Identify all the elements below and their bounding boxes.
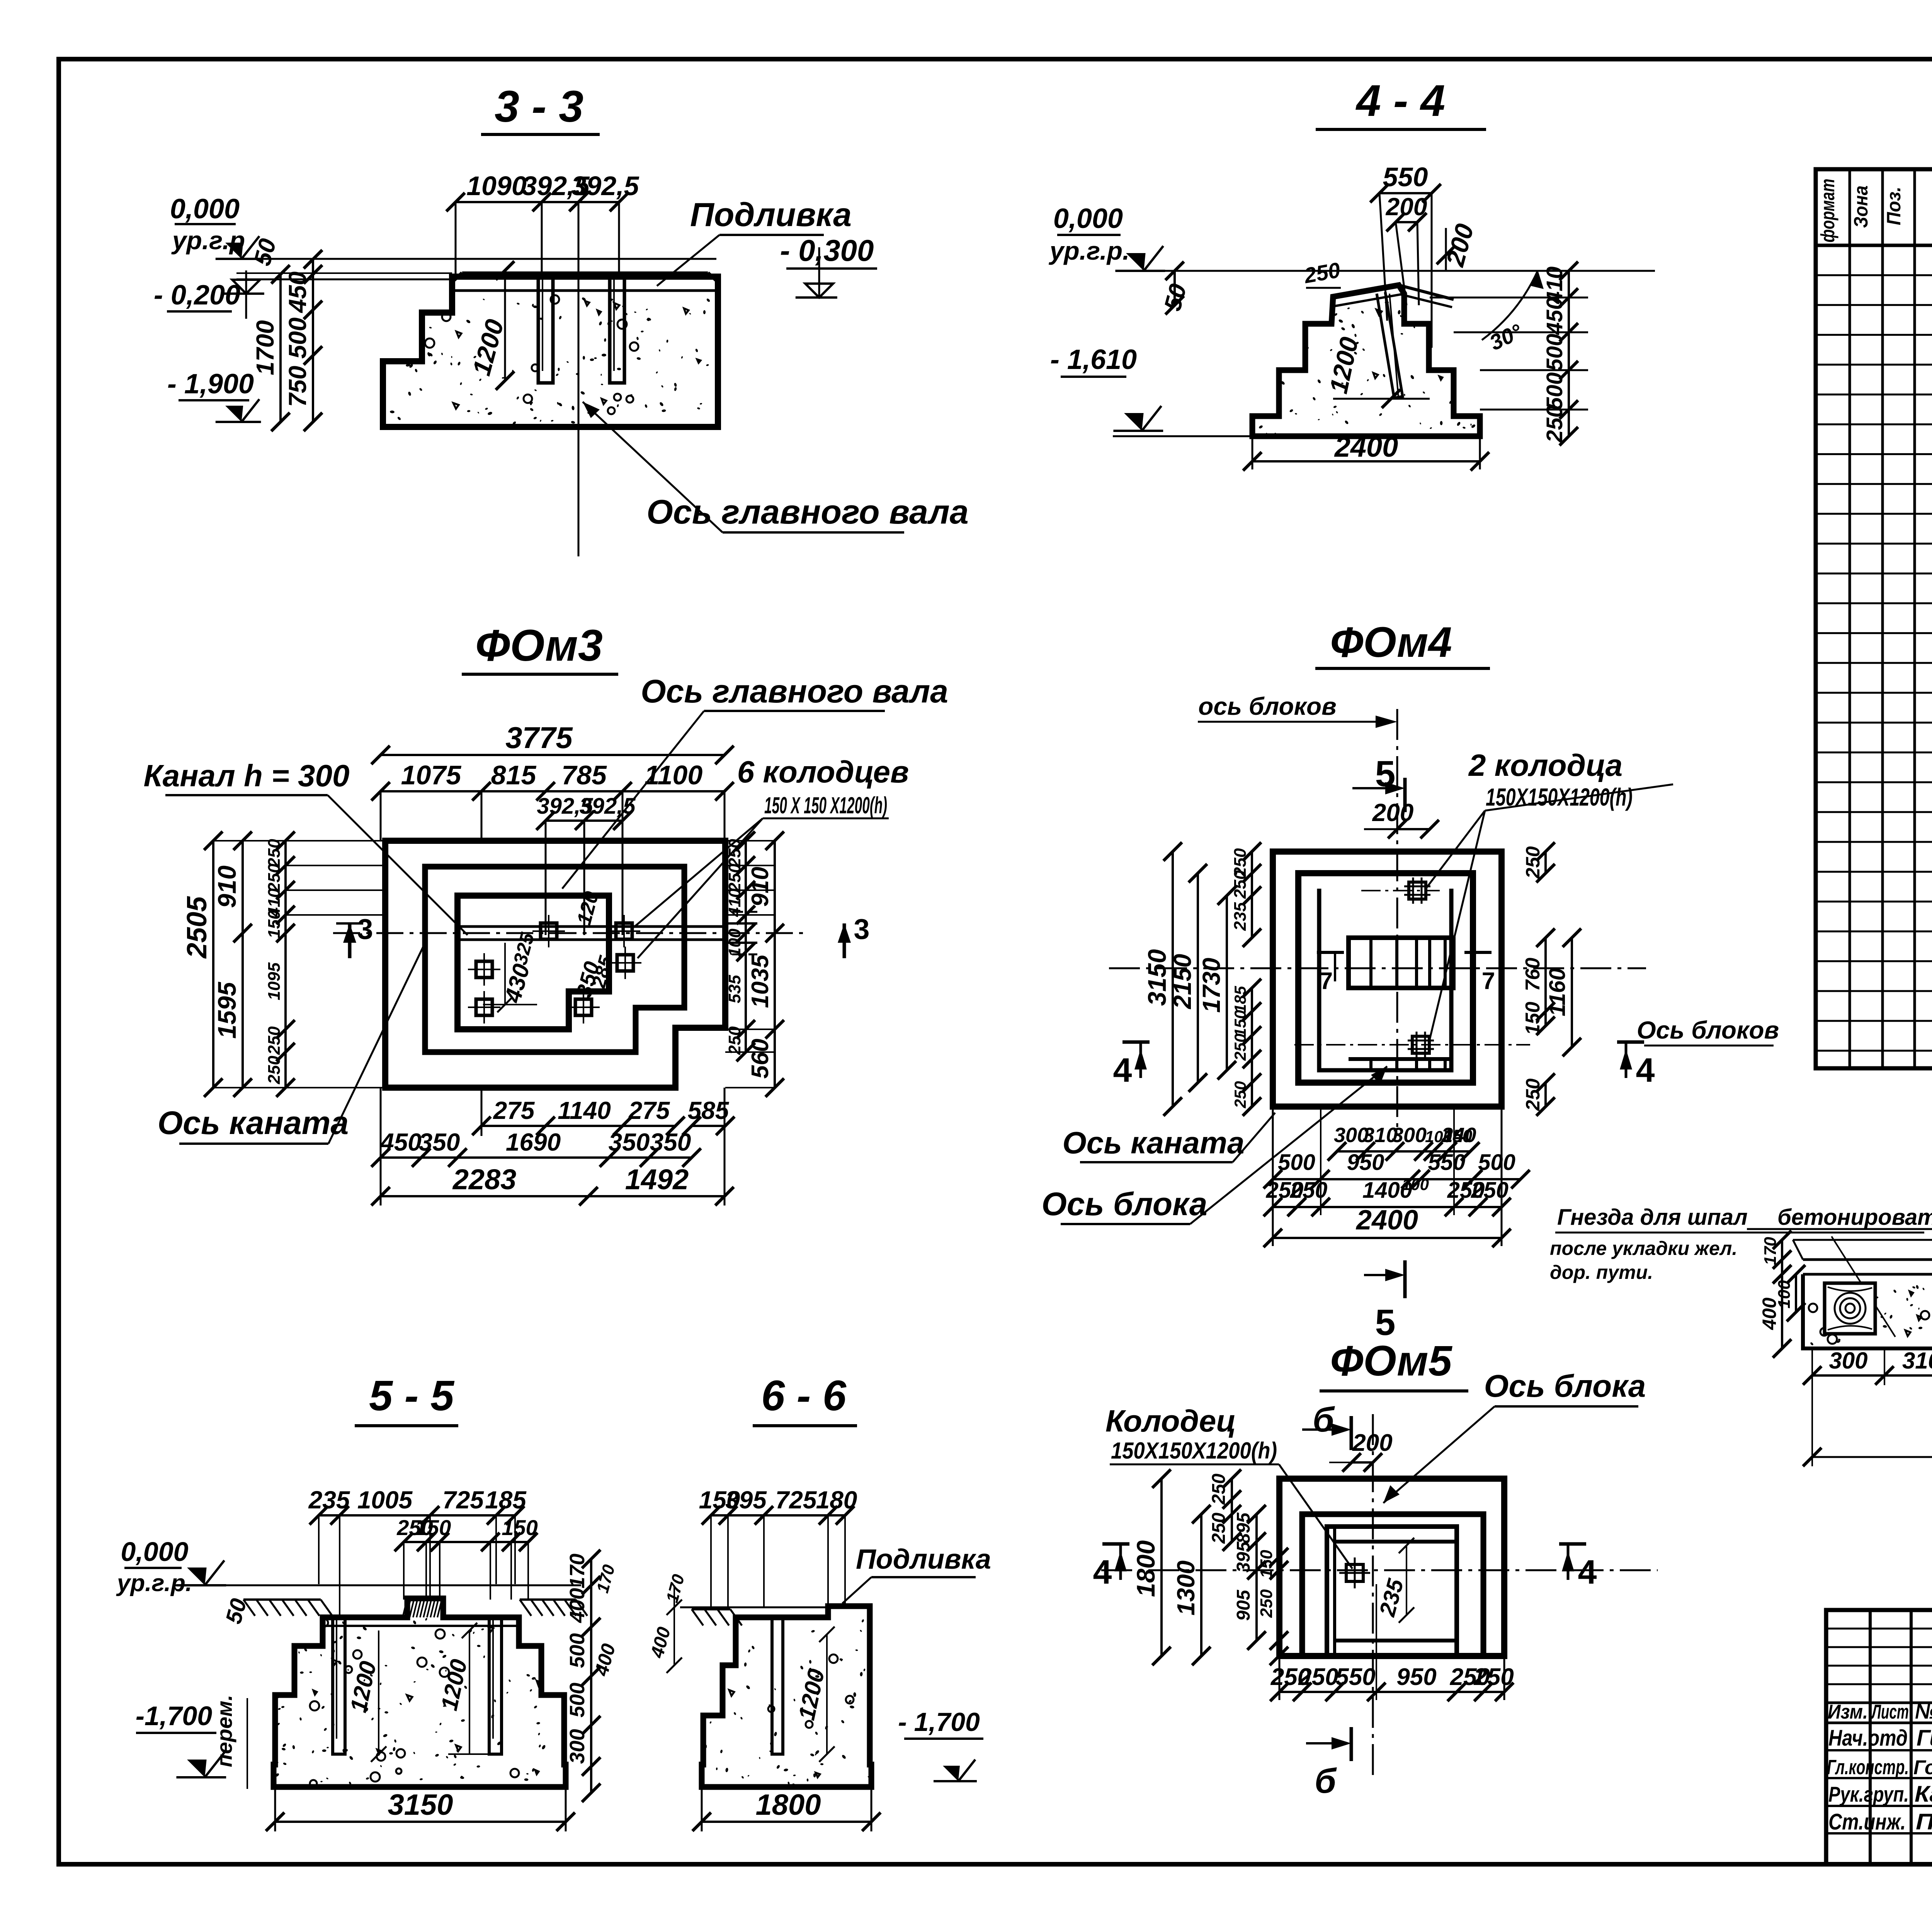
svg-text:550: 550 [1335,1664,1375,1690]
section 3-3 -0,200 level [154,270,452,319]
svg-text:395: 395 [725,1486,767,1514]
svg-text:150X150X1200(h): 150X150X1200(h) [1111,1438,1277,1464]
label Os kanata (FOm4) [1063,1113,1275,1162]
svg-text:ФОм5: ФОм5 [1330,1337,1452,1385]
svg-text:1035: 1035 [747,954,774,1008]
section 3-3 depth dimension 1200 [467,261,514,390]
svg-text:Гин: Гин [1917,1726,1932,1751]
svg-text:Гл.констр.: Гл.констр. [1827,1756,1909,1779]
svg-text:1005: 1005 [357,1486,413,1514]
svg-text:785: 785 [561,760,607,790]
svg-text:500: 500 [566,1683,589,1717]
svg-text:310: 310 [1902,1348,1932,1374]
FOm5 section mark b (top) [1302,1401,1351,1450]
svg-text:300: 300 [1829,1348,1867,1374]
svg-text:50: 50 [249,236,281,268]
svg-text:0,000: 0,000 [1053,203,1123,234]
svg-text:1160: 1160 [1545,968,1570,1017]
section 6-6 level -1,700 [898,1707,983,1781]
label Os blokov (FOm4 right) [1637,1016,1779,1046]
svg-text:910: 910 [213,865,241,908]
svg-text:ФОм3: ФОм3 [475,621,603,670]
svg-text:250: 250 [1231,1081,1249,1109]
FOm4 section mark 5 (top) [1352,753,1405,812]
svg-text:400: 400 [647,1625,675,1660]
svg-text:- 1,610: - 1,610 [1050,344,1137,375]
svg-text:1200: 1200 [467,316,509,378]
svg-text:250: 250 [1257,1589,1276,1618]
svg-text:- 1,700: - 1,700 [898,1707,980,1737]
title block left sign table [1826,1610,1932,1864]
FOm4 middle contour [1298,873,1473,1083]
svg-text:1690: 1690 [506,1128,561,1156]
section 5-5 1200 depth labels [345,1623,502,1762]
materials table grid [1816,169,1932,1068]
label Os glavnogo vala (FOm3) [562,673,948,889]
svg-text:Колодец: Колодец [1105,1404,1236,1438]
svg-text:250: 250 [1522,1078,1544,1111]
section 4-4 inclined pocket and podlivka wedge [1333,285,1454,398]
svg-text:300: 300 [566,1729,589,1764]
svg-text:1800: 1800 [755,1789,821,1821]
svg-text:170: 170 [1761,1237,1780,1265]
svg-text:Канал h = 300: Канал h = 300 [144,758,350,793]
svg-text:Попкова: Попкова [1916,1809,1932,1834]
svg-text:250: 250 [1302,258,1342,288]
FOm5 well [1339,1557,1370,1588]
svg-text:250: 250 [265,864,284,893]
svg-text:325: 325 [509,930,539,967]
section 3-3 title [481,82,600,134]
section 5-5 ground level 0,000 [116,1537,581,1627]
FOm4 os blokov label (top) [1198,692,1397,728]
svg-text:Поз.: Поз. [1883,187,1905,225]
FOm4 bottom dim chains [1264,1107,1530,1247]
svg-text:550: 550 [1383,162,1428,192]
svg-text:410: 410 [725,888,744,917]
svg-text:1095: 1095 [265,962,284,1000]
section 7-7 bottom dims 300/310/300/100/150/240 [1803,1348,1932,1385]
label Os bloka (FOm5) [1383,1369,1646,1503]
svg-text:3: 3 [854,913,869,945]
svg-text:180: 180 [816,1486,857,1514]
svg-text:1700: 1700 [251,320,279,375]
section 6-6 ground hatch + level [647,1572,871,1673]
FOm3 left dim chains 2505/910/1595/etc [182,831,385,1097]
svg-text:бетонировать: бетонировать [1777,1205,1932,1230]
section 7-7 sleeper nests (wood grain) [1825,1283,1875,1334]
FOm3 channel band (kanal) [457,912,757,954]
FOm4 left dim chains 3150/2150/1730 [1143,842,1261,1116]
plan FOm5 title [1320,1337,1468,1391]
section 5-5 bottom dim 3150 [266,1789,575,1831]
svg-text:1200: 1200 [1324,334,1364,396]
svg-text:1200: 1200 [436,1657,472,1712]
section 7-7 total dim 1400 [1803,1350,1932,1470]
svg-text:185: 185 [485,1486,527,1514]
svg-text:ФОм4: ФОм4 [1330,619,1452,666]
plan FOm4 title [1315,619,1490,668]
section 5-5 stepped foundation body [273,1598,566,1787]
svg-text:формат: формат [1817,179,1838,243]
svg-text:760: 760 [1522,958,1544,991]
svg-text:Ось блоков: Ось блоков [1637,1016,1779,1044]
FOm4 inner U contour [1319,889,1451,1070]
FOm4 slab band with bars [1349,938,1453,1070]
svg-text:250: 250 [1209,1513,1229,1544]
FOm4 outer contour [1273,852,1502,1107]
section 5-5 right level chain [566,1550,619,1802]
svg-text:300: 300 [1392,1124,1427,1147]
svg-text:Ось блока: Ось блока [1484,1369,1646,1404]
svg-text:1400: 1400 [1362,1178,1412,1203]
svg-text:1492: 1492 [625,1163,689,1195]
FOm5 outer contour [1279,1479,1504,1656]
section 4-4 bottom dim 2400 [1243,431,1489,471]
svg-text:250: 250 [725,864,744,893]
FOm5 middle contour [1302,1514,1483,1656]
svg-text:250: 250 [1231,1034,1249,1061]
svg-text:400: 400 [590,1641,619,1678]
svg-text:5 - 5: 5 - 5 [369,1372,455,1420]
FOm3 top dim chains 3775 / 1075 815 785 1100 / 392,5 [371,721,734,935]
svg-text:200: 200 [1386,193,1427,221]
section 3-3 anchor wells (kolodtsy) [538,277,553,383]
svg-text:150: 150 [415,1515,451,1540]
svg-text:275: 275 [493,1097,535,1124]
FOm4 two wells with crosshatch [1404,877,1430,904]
svg-text:815: 815 [491,760,537,790]
svg-text:ур.г.р.: ур.г.р. [116,1570,192,1596]
svg-text:Нач.отд: Нач.отд [1828,1726,1908,1751]
svg-text:3: 3 [357,913,373,945]
svg-text:- 0,300: - 0,300 [780,233,874,267]
svg-text:- 1,900: - 1,900 [167,369,254,400]
svg-text:2150: 2150 [1168,954,1196,1009]
label Os kanata (FOm3) [158,939,427,1144]
svg-text:170: 170 [593,1562,619,1595]
svg-text:Гнезда для шпал: Гнезда для шпал [1557,1205,1748,1230]
svg-text:ур.г.р.: ур.г.р. [1049,236,1130,265]
FOm3 inner slab contour [457,896,609,1029]
section 3-3 ground level line 0,000 [170,194,716,269]
svg-text:2400: 2400 [1334,431,1398,463]
svg-text:725: 725 [442,1486,484,1514]
section 3-3 foundation body [383,273,718,427]
svg-text:б: б [1315,1762,1337,1800]
svg-text:1595: 1595 [213,981,241,1039]
title block left table texts [1828,1699,1932,1723]
svg-text:3150: 3150 [388,1789,453,1821]
svg-text:Лист: Лист [1871,1701,1909,1723]
svg-text:Ось каната: Ось каната [1063,1126,1245,1160]
section 7-7 note text [1550,1205,1932,1283]
FOm4 well axes dashdot [1294,891,1530,1045]
FOm3 six anchor wells [532,915,565,947]
svg-text:250: 250 [1471,1178,1509,1203]
svg-text:585: 585 [688,1097,730,1124]
label Os bloka (FOm4) [1042,1066,1387,1224]
svg-text:350: 350 [650,1128,691,1156]
svg-text:Касьянова: Касьянова [1915,1782,1932,1807]
svg-text:250: 250 [1473,1664,1514,1690]
FOm3 section mark 3 (left and right) [336,913,373,958]
section 7-7 leaders to blocks [1832,1233,1932,1341]
FOm4 horizontal axis (os kanata) [1109,967,1646,969]
svg-text:2283: 2283 [452,1163,517,1195]
svg-text:150: 150 [1257,1550,1276,1578]
FOm5 section marks 4 left/right [1093,1544,1129,1591]
svg-text:4: 4 [1636,1051,1655,1089]
svg-text:Ось главного вала: Ось главного вала [646,493,968,531]
svg-text:после укладки жел.: после укладки жел. [1550,1238,1737,1259]
svg-text:Подливка: Подливка [856,1544,991,1575]
svg-text:250: 250 [1542,405,1567,443]
svg-text:750: 750 [284,366,311,407]
section 4-4 dim 550 over 200 [1370,162,1441,348]
svg-text:285: 285 [587,953,617,991]
svg-text:0,000: 0,000 [170,194,240,224]
FOm5 section mark b (bottom) [1306,1727,1351,1800]
svg-text:Зона: Зона [1850,185,1872,228]
FOm4 vertical axis (os blokov) [1396,709,1398,1136]
FOm5 left dim chains 1800/1300 [1131,1469,1288,1665]
svg-text:950: 950 [1347,1150,1384,1175]
svg-text:450: 450 [379,1128,422,1156]
section 7-7 rail pad layers [1747,1229,1932,1274]
svg-text:500: 500 [566,1633,589,1668]
section 6-6 stepped foundation body [702,1606,871,1787]
svg-text:560: 560 [747,1039,774,1078]
section 4-4 misc small dims 250/200/30 [1302,221,1544,355]
svg-text:500: 500 [1542,372,1567,410]
svg-text:150: 150 [502,1515,537,1540]
svg-text:950: 950 [1396,1664,1436,1690]
svg-text:- 0,200: - 0,200 [154,280,240,311]
svg-text:Гольденшлюгер: Гольденшлюгер [1913,1756,1932,1779]
svg-text:7: 7 [1482,968,1495,995]
svg-text:№ докум.: № докум. [1915,1699,1932,1723]
label -0,300 level (3-3) [780,233,877,298]
svg-text:725: 725 [776,1486,817,1514]
svg-text:1090: 1090 [466,171,527,201]
FOm5 slab lines [1335,1527,1457,1656]
svg-text:250: 250 [1209,1474,1229,1505]
FOm4 dim 200 (top) [1364,799,1439,838]
svg-text:1075: 1075 [401,760,462,790]
svg-text:250: 250 [265,839,284,868]
svg-text:Ось главного вала: Ось главного вала [641,673,948,709]
svg-text:30°: 30° [1486,319,1526,355]
svg-text:2505: 2505 [182,896,213,959]
section 5-5 top dims 235/1005/725/185 and 250/150/150 [308,1486,538,1615]
FOm3 right dim chains 910/1035/560 [725,831,784,1097]
FOm4 right dim chains 250/760/150/1160 [1522,842,1581,1116]
FOm5 bottom dim chain [1270,1584,1514,1701]
svg-text:100: 100 [725,928,744,957]
svg-text:450: 450 [284,272,311,314]
svg-text:150: 150 [1231,1010,1249,1037]
FOm3 horizontal main axis (os glavnogo vala) [333,932,804,934]
section 6-6 bottom dim 1800 [692,1789,881,1831]
svg-text:150 X 150 X1200(h): 150 X 150 X1200(h) [764,792,887,818]
svg-text:Рук.груп.: Рук.груп. [1828,1782,1909,1806]
svg-text:-1,700: -1,700 [136,1701,213,1731]
svg-text:3 - 3: 3 - 3 [495,82,583,131]
svg-text:250: 250 [1290,1178,1328,1203]
label Kanal h=300 [144,758,468,935]
FOm4 section marks 7 left/right [1317,952,1344,995]
section 6-6 title [753,1372,857,1426]
FOm3 bottom dim chains [371,1088,735,1205]
svg-text:250: 250 [265,1056,284,1085]
svg-text:Изм.: Изм. [1828,1701,1868,1723]
section 5-5 ground hatch left/right [243,1600,587,1616]
svg-text:500: 500 [1278,1150,1315,1175]
section 3-3 main shaft axis [578,247,580,556]
label Kolodets 150x150x1200(h) [1105,1404,1352,1569]
svg-text:Ось блока: Ось блока [1042,1186,1207,1222]
svg-text:550: 550 [1428,1150,1466,1175]
section 4-4 right level chain 410/450/500/250 [1430,262,1588,445]
section 6-6 anchor channel [772,1617,783,1754]
svg-text:235: 235 [308,1486,350,1514]
section 6-6 podlivka label [842,1544,991,1603]
section 4-4 title [1316,76,1486,129]
svg-text:275: 275 [628,1097,670,1124]
svg-text:235: 235 [1374,1576,1408,1619]
svg-text:535: 535 [725,975,744,1003]
svg-text:2 колодца: 2 колодца [1468,748,1622,782]
svg-text:4: 4 [1113,1051,1132,1089]
svg-text:905: 905 [1233,1590,1254,1621]
svg-text:500: 500 [284,318,311,359]
svg-text:200: 200 [1372,799,1414,826]
svg-text:400: 400 [1759,1297,1780,1330]
svg-text:250: 250 [1522,846,1544,879]
svg-text:4: 4 [1578,1553,1597,1591]
section 5-5 level -1,700 [136,1695,247,1789]
section 7-7 concrete band [1803,1274,1932,1348]
svg-text:1140: 1140 [558,1097,611,1124]
section 4-4 ground level 0,000 [1049,203,1655,315]
svg-text:150: 150 [265,910,284,938]
section 4-4 -1,610 level [1050,344,1252,436]
svg-text:392,5: 392,5 [571,171,639,201]
svg-text:500: 500 [1542,334,1567,371]
svg-text:170: 170 [663,1572,688,1605]
label Os glavnogo vala (3-3) [583,402,969,532]
materials table header texts [1817,179,1932,243]
svg-text:Подливка: Подливка [690,196,852,233]
FOm4 section marks 4 left/right [1113,1042,1150,1089]
svg-text:250: 250 [1298,1664,1338,1690]
FOm5 axes dash-dot [1101,1414,1658,1777]
svg-text:250: 250 [265,1026,284,1055]
svg-text:1800: 1800 [1131,1540,1160,1597]
svg-text:450: 450 [1542,298,1567,335]
svg-text:235: 235 [1231,902,1250,931]
svg-text:400: 400 [566,1588,589,1623]
svg-text:150: 150 [1443,1126,1473,1146]
svg-text:перем.: перем. [212,1695,236,1767]
svg-text:0,000: 0,000 [121,1537,188,1567]
svg-text:2400: 2400 [1355,1205,1418,1236]
svg-text:4 - 4: 4 - 4 [1355,76,1445,126]
svg-text:150: 150 [1522,1002,1544,1035]
section 3-3 -1,900 level [167,369,261,422]
svg-text:170: 170 [566,1554,589,1588]
FOm5 inner dim 235 [1374,1538,1414,1623]
section 3-3 top dimension chain 1090/392,5/392,5 [446,171,639,556]
FOm5 inner contour [1327,1527,1457,1656]
section 6-6 top dims 150/395/725/180 [699,1486,857,1607]
svg-text:1200: 1200 [793,1666,829,1722]
FOm3 inner small dims 120/325/430/350/285 [483,889,617,1012]
svg-text:350: 350 [609,1128,650,1156]
svg-text:Ст.инж.: Ст.инж. [1828,1809,1906,1834]
svg-text:ось блоков: ось блоков [1198,692,1337,720]
svg-text:250: 250 [725,1026,744,1055]
label 2 kolodtsa 150x150x1200(h) [1426,748,1673,1039]
svg-text:4: 4 [1093,1553,1112,1591]
FOm3 middle contour [425,867,684,1052]
label 6 kolodtsev 150x150x1200(h) [634,755,909,958]
FOm5 dim 200 top [1329,1430,1393,1472]
svg-text:дор. пути.: дор. пути. [1550,1262,1653,1283]
svg-text:350: 350 [419,1128,460,1156]
svg-text:395: 395 [1233,1541,1254,1573]
svg-text:6 - 6: 6 - 6 [761,1372,847,1420]
svg-text:7: 7 [1320,968,1333,995]
FOm3 outer contour with bottom-right notch [385,841,725,1088]
svg-text:Ось каната: Ось каната [158,1105,349,1141]
section 7-7 left small chain 170/100/400 [1759,1231,1805,1358]
section 5-5 title [355,1372,458,1426]
svg-text:3775: 3775 [505,721,573,755]
svg-text:1730: 1730 [1197,958,1225,1013]
svg-text:250: 250 [1231,870,1250,899]
svg-text:895: 895 [1233,1512,1254,1544]
FOm4 section mark 5 (bottom) [1364,1260,1405,1343]
section 4-4 stepped foundation body [1252,285,1480,436]
section 4-4 depth 1200 label [1324,334,1430,408]
svg-text:185: 185 [1231,986,1249,1013]
section 3-3 left dimension chain 450/500/750/1700 [251,250,322,431]
svg-text:500: 500 [1478,1150,1515,1175]
svg-text:6 колодцев: 6 колодцев [737,755,909,789]
plan FOm3 title [462,621,618,674]
svg-text:1300: 1300 [1172,1561,1200,1615]
title block outer [1826,1610,1932,1864]
section 5-5 two anchor channels [333,1617,345,1754]
section 6-6 1200 label [793,1627,835,1762]
label Podlivka (3-3) [657,196,852,286]
svg-text:3150: 3150 [1143,949,1171,1006]
